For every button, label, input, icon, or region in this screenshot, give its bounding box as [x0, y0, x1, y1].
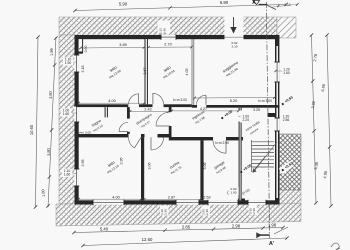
door cucina — [151, 137, 164, 150]
diagonal dim 1.10 top right — [268, 6, 277, 10]
wall letto3|cucina — [141, 137, 144, 200]
window letto3 left wall — [74, 169, 79, 186]
section marker A — [253, 1, 260, 5]
window cucina bottom wall — [176, 200, 199, 205]
garage door bottom wall — [208, 200, 238, 205]
spec below wall cucina — [202, 206, 210, 216]
door soggiorno — [205, 95, 207, 105]
pillar garage door right — [238, 199, 245, 205]
wall cucina|garage — [200, 140, 203, 200]
wall letto2|soggiorno (thin) — [191, 39, 193, 105]
hatched wall band top — [59, 17, 277, 37]
dim 2.70 letto2 — [149, 46, 192, 48]
wall garage|vano scala — [239, 108, 242, 201]
level marker crosshatch — [279, 161, 294, 174]
door disimpegno-ingresso — [156, 112, 170, 126]
hatched wall band left — [59, 35, 76, 204]
door letto1 — [138, 94, 140, 105]
bottom total dimension 12.60 — [83, 238, 287, 246]
stairs direction arrow — [252, 168, 256, 173]
door vano scala right wall — [275, 118, 280, 131]
exterior wall top — [76, 35, 279, 39]
dim 4.00 letto3 — [79, 198, 141, 200]
section marker A' — [259, 234, 270, 236]
handwritten mark bottom right — [331, 243, 340, 250]
left outer dimension 10.60 — [36, 37, 39, 207]
entrance gap in top band — [225, 16, 244, 36]
door letto3 — [129, 137, 135, 148]
exterior wall bottom — [75, 200, 280, 204]
stub wall in bagno — [105, 107, 108, 117]
entrance arrow — [233, 17, 235, 28]
door gap apartment entrance — [238, 111, 242, 122]
window letto3 bottom wall — [93, 200, 124, 205]
dim 2.87 cucina — [144, 198, 200, 200]
dim 3.89 letto1 — [81, 46, 145, 49]
wall letto1|letto2 — [145, 39, 148, 104]
door bagno — [119, 131, 128, 133]
door gap letto1 — [128, 104, 139, 107]
diagonal tick near A' — [274, 227, 288, 234]
exterior wall left — [75, 35, 79, 204]
spec box letto2 top window — [158, 21, 171, 34]
spec 1.10/1.90 window letto1 — [63, 57, 73, 65]
dim 4.27 ingresso — [172, 110, 239, 112]
door gap cucina — [145, 134, 158, 138]
dim 4.00 letto1 — [79, 102, 145, 104]
wall bagno-disimpegno bottom — [76, 134, 171, 137]
hatched band top-right sparse — [277, 17, 296, 38]
window soggiorno right wall — [275, 62, 280, 82]
spec 1.00/1.60 window bagno — [61, 108, 71, 116]
wall below soggiorno — [192, 105, 280, 108]
spec 1.10/1.60 window letto3 — [62, 169, 72, 177]
spec 1.00/2.20 apartment door — [241, 114, 251, 122]
wall ingresso-garage bottom — [169, 137, 243, 140]
wall bagno|disimpegno — [127, 107, 130, 119]
spec 1.20/2.56 vano scala door — [281, 114, 291, 122]
entrance opening top wall — [225, 35, 244, 40]
stairs treads — [252, 141, 275, 143]
door gap disimpegno-ingresso — [168, 112, 172, 126]
spec below wall vano scala — [249, 205, 257, 215]
door gap garage — [213, 137, 226, 141]
window letto1 left wall — [74, 55, 79, 72]
corner pocket letto1 — [79, 39, 83, 51]
wall below letto1-letto2 — [76, 104, 192, 107]
dim 2.43 disimpegno — [130, 111, 169, 113]
right outer dimensions 6.60/4.90 — [327, 35, 331, 206]
dim 5.20 soggiorno — [195, 97, 275, 100]
spec 0.92/2.10 entrance — [229, 41, 239, 49]
hatched band lower-right — [279, 190, 301, 204]
right inner dimensions 2.78/3.02/5.30 — [312, 35, 317, 203]
door garage — [213, 140, 226, 153]
door gap soggiorno — [197, 105, 206, 108]
window bagno left wall — [74, 106, 79, 122]
exterior wall right — [275, 35, 279, 204]
stub wall vano scala right — [268, 113, 276, 117]
hatched wall band bottom — [56, 203, 301, 226]
section line A-A' — [266, 2, 269, 238]
door letto2 — [152, 93, 154, 104]
door gap letto2 — [153, 104, 164, 107]
top dimension 5.90/6.90 — [75, 5, 286, 11]
spec below wall letto3 — [160, 206, 168, 216]
window letto2 top wall — [161, 35, 176, 40]
wall bagno|disimpegno lower stub — [127, 132, 130, 135]
crosshatch patch lower-right — [279, 134, 301, 190]
door gap letto3 — [129, 134, 142, 138]
wall disimpegno|ingresso — [169, 107, 172, 137]
door vano scala bottom wall — [248, 200, 266, 205]
stairs diagonal line — [253, 142, 277, 173]
wall cucina top right part — [158, 134, 172, 137]
spec 0.90/1.40 garage — [228, 187, 238, 195]
bottom dimension 5.40/2.85/2.98/1.98 — [74, 228, 283, 233]
left inner dimensions 1.86/3.80/3.80/1.80 — [48, 37, 56, 207]
